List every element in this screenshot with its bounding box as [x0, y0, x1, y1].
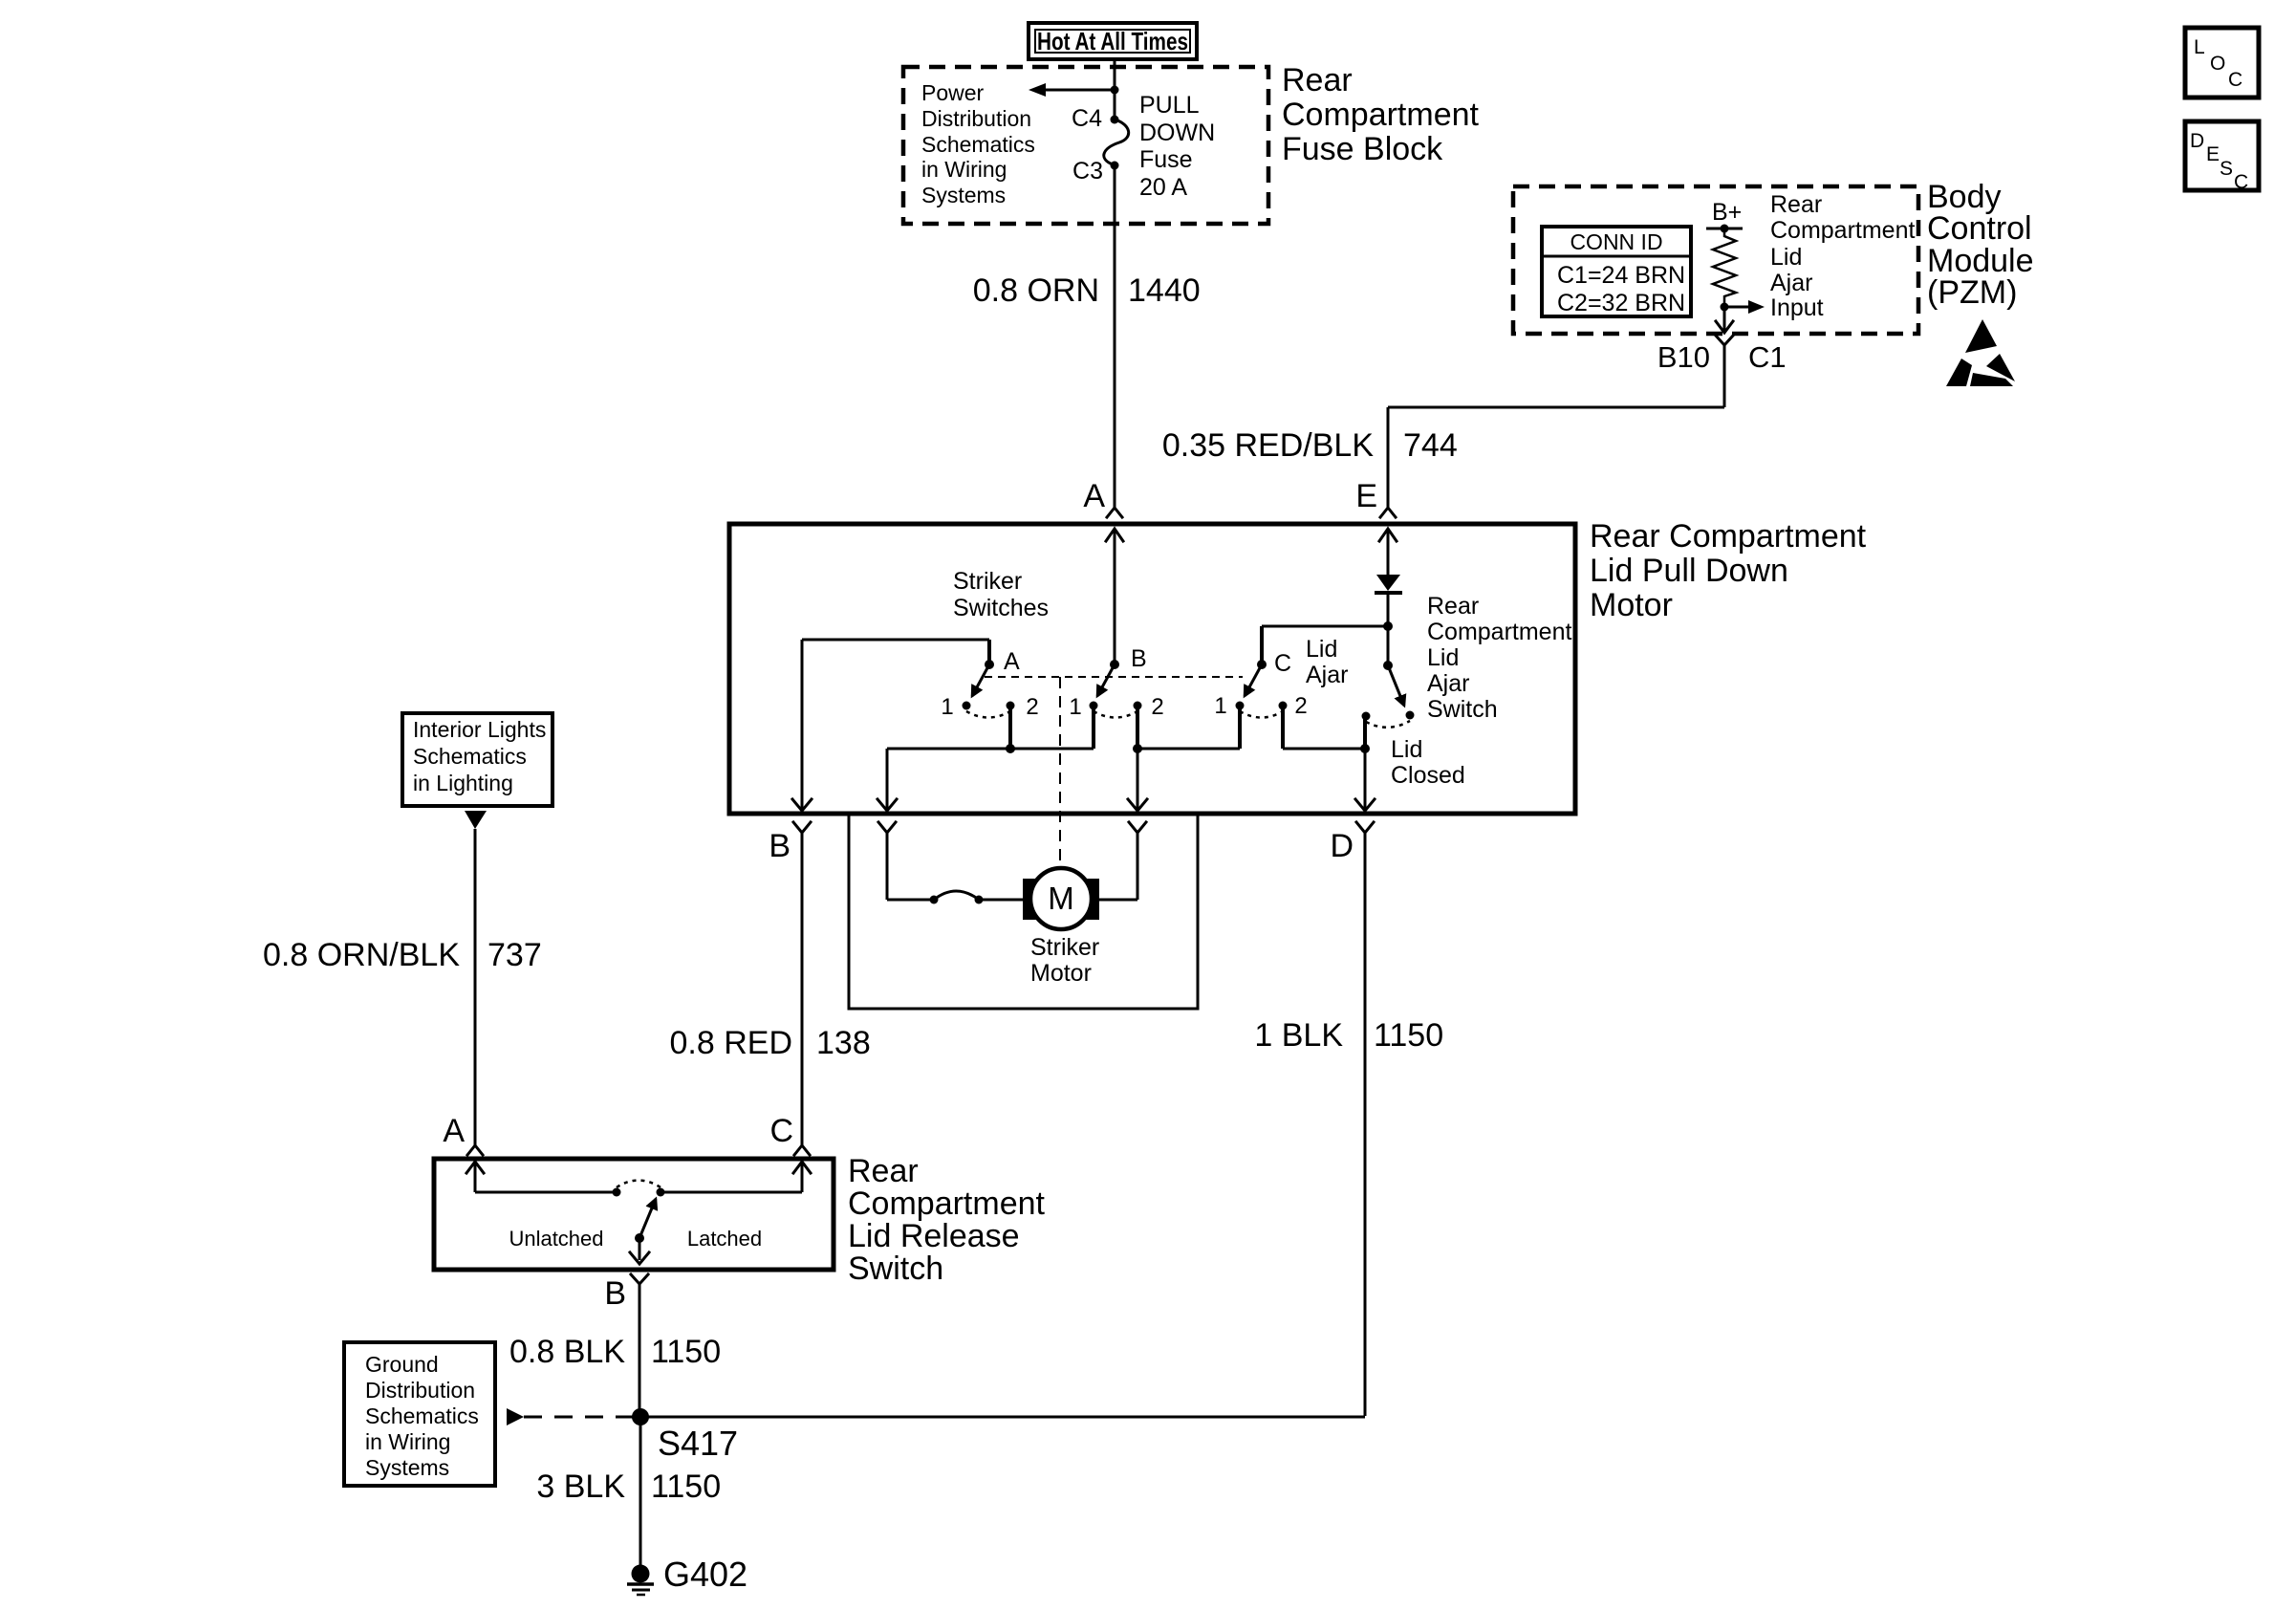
svg-text:Fuse Block: Fuse Block	[1282, 131, 1443, 167]
svg-text:Lid: Lid	[1427, 644, 1459, 671]
svg-text:Unlatched: Unlatched	[509, 1227, 603, 1251]
svg-text:C: C	[769, 1113, 793, 1149]
svg-text:Rear: Rear	[848, 1153, 919, 1189]
svg-text:D: D	[1330, 828, 1354, 864]
svg-text:1: 1	[1069, 694, 1081, 720]
svg-text:Compartment: Compartment	[1427, 619, 1571, 645]
svg-text:Ajar: Ajar	[1770, 270, 1812, 296]
svg-text:Systems: Systems	[365, 1455, 449, 1480]
svg-text:DOWN: DOWN	[1139, 120, 1215, 146]
svg-text:0.8 ORN/BLK: 0.8 ORN/BLK	[263, 937, 460, 973]
svg-text:O: O	[2210, 53, 2225, 75]
svg-text:C2=32 BRN: C2=32 BRN	[1557, 290, 1685, 316]
svg-text:in Lighting: in Lighting	[413, 771, 513, 795]
svg-text:Power: Power	[921, 80, 985, 105]
svg-text:Closed: Closed	[1391, 762, 1465, 789]
svg-text:Ground: Ground	[365, 1352, 439, 1377]
svg-text:744: 744	[1403, 427, 1458, 464]
svg-text:Interior Lights: Interior Lights	[413, 717, 546, 742]
svg-text:Lid: Lid	[1306, 636, 1337, 663]
svg-text:in Wiring: in Wiring	[921, 157, 1007, 182]
svg-text:D: D	[2190, 130, 2204, 152]
svg-text:C3: C3	[1072, 158, 1103, 185]
svg-text:1: 1	[1214, 693, 1226, 719]
svg-text:1440: 1440	[1128, 272, 1201, 309]
svg-text:L: L	[2194, 36, 2205, 58]
svg-text:C: C	[2234, 171, 2248, 193]
svg-text:S: S	[2220, 158, 2233, 180]
svg-text:C: C	[2228, 69, 2242, 91]
svg-text:Lid Release: Lid Release	[848, 1218, 1020, 1254]
svg-text:1 BLK: 1 BLK	[1254, 1017, 1343, 1054]
svg-text:Rear: Rear	[1282, 62, 1353, 98]
svg-text:C4: C4	[1072, 105, 1102, 132]
svg-text:A: A	[443, 1113, 465, 1149]
svg-text:Lid: Lid	[1391, 736, 1422, 763]
svg-text:C1=24 BRN: C1=24 BRN	[1557, 262, 1685, 289]
svg-text:Schematics: Schematics	[413, 744, 527, 769]
svg-text:C1: C1	[1748, 340, 1787, 374]
svg-text:E: E	[2206, 143, 2220, 165]
svg-text:Switch: Switch	[848, 1251, 943, 1287]
svg-text:2: 2	[1294, 693, 1307, 719]
svg-text:Hot At All Times: Hot At All Times	[1037, 27, 1188, 55]
svg-text:20 A: 20 A	[1139, 174, 1187, 201]
svg-text:A: A	[1083, 478, 1105, 514]
svg-text:3 BLK: 3 BLK	[536, 1469, 625, 1505]
svg-text:0.8 ORN: 0.8 ORN	[973, 272, 1099, 309]
svg-text:B: B	[769, 828, 791, 864]
svg-text:Rear: Rear	[1770, 191, 1822, 218]
svg-text:Striker: Striker	[1030, 934, 1099, 961]
svg-text:Lid: Lid	[1770, 244, 1802, 271]
svg-text:M: M	[1048, 881, 1074, 916]
svg-text:Ajar: Ajar	[1306, 662, 1348, 688]
svg-text:A: A	[1004, 648, 1020, 675]
svg-text:Systems: Systems	[921, 183, 1006, 207]
svg-text:2: 2	[1151, 694, 1163, 720]
svg-text:B10: B10	[1657, 340, 1710, 374]
svg-text:Striker: Striker	[953, 568, 1022, 595]
svg-text:Control: Control	[1927, 210, 2032, 247]
svg-text:Motor: Motor	[1590, 587, 1673, 623]
svg-text:C: C	[1274, 650, 1291, 677]
svg-text:Input: Input	[1770, 294, 1824, 321]
svg-text:(PZM): (PZM)	[1927, 274, 2017, 311]
svg-text:Fuse: Fuse	[1139, 146, 1193, 173]
svg-text:B: B	[604, 1275, 626, 1312]
svg-text:0.8 RED: 0.8 RED	[670, 1025, 793, 1061]
svg-text:Latched: Latched	[687, 1227, 762, 1251]
svg-text:Switch: Switch	[1427, 696, 1498, 723]
svg-text:Compartment: Compartment	[1282, 97, 1480, 133]
svg-text:Ajar: Ajar	[1427, 670, 1469, 697]
svg-text:Schematics: Schematics	[365, 1403, 479, 1428]
svg-text:Rear Compartment: Rear Compartment	[1590, 518, 1867, 555]
svg-text:Rear: Rear	[1427, 593, 1479, 620]
svg-text:Distribution: Distribution	[365, 1378, 475, 1403]
svg-text:B: B	[1131, 645, 1147, 672]
svg-text:Lid Pull Down: Lid Pull Down	[1590, 553, 1788, 589]
svg-text:CONN ID: CONN ID	[1570, 229, 1662, 254]
svg-text:S417: S417	[658, 1424, 738, 1463]
svg-text:1150: 1150	[651, 1469, 721, 1505]
svg-text:138: 138	[816, 1025, 871, 1061]
svg-text:B+: B+	[1712, 199, 1742, 226]
svg-text:G402: G402	[663, 1555, 747, 1594]
svg-text:2: 2	[1026, 694, 1038, 720]
svg-text:Switches: Switches	[953, 595, 1049, 621]
svg-text:Compartment: Compartment	[1770, 217, 1915, 244]
svg-text:Motor: Motor	[1030, 960, 1092, 987]
svg-text:1: 1	[941, 694, 953, 720]
svg-text:Compartment: Compartment	[848, 1186, 1046, 1222]
svg-text:0.35 RED/BLK: 0.35 RED/BLK	[1162, 427, 1374, 464]
svg-text:737: 737	[487, 937, 542, 973]
svg-text:1150: 1150	[1374, 1017, 1443, 1054]
svg-text:in Wiring: in Wiring	[365, 1429, 450, 1454]
svg-text:PULL: PULL	[1139, 92, 1200, 119]
svg-text:Distribution: Distribution	[921, 106, 1031, 131]
svg-text:1150: 1150	[651, 1334, 721, 1370]
svg-text:E: E	[1355, 478, 1377, 514]
svg-text:0.8 BLK: 0.8 BLK	[509, 1334, 625, 1370]
svg-text:Schematics: Schematics	[921, 132, 1035, 157]
